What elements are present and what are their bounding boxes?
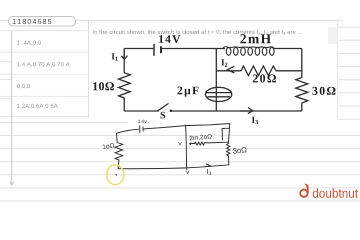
hand node v left (178, 142, 181, 145)
wire left upper (123, 49, 125, 73)
wire top left (124, 48, 153, 50)
wire branch 20ohm left (216, 70, 241, 72)
hand wire top mid (144, 126, 186, 129)
highlight circle cursor (107, 165, 124, 185)
label I3 (252, 117, 258, 124)
label I1 (112, 53, 118, 60)
hand wire left upper (116, 133, 119, 143)
wire top right (275, 48, 302, 50)
label 14V (159, 35, 180, 43)
hand wire right lower (228, 156, 230, 165)
resistor R3 30ohm (296, 78, 308, 103)
switch S (157, 103, 172, 112)
left mini column separators (0, 62, 12, 99)
hand label 2m 20ohm (190, 134, 212, 141)
label S (161, 112, 166, 119)
hand arrow I3 (205, 164, 210, 167)
hand wire mid vertical (186, 125, 187, 169)
arrow I1 (121, 50, 127, 59)
label 2uF (178, 87, 199, 97)
hand stray stroke (222, 128, 230, 140)
option A text (17, 41, 41, 46)
hand branch 20ohm (189, 142, 229, 145)
option C text (17, 84, 30, 89)
wire bottom left (124, 110, 159, 112)
sidebar id pill (9, 17, 76, 27)
hand wire bottom (118, 165, 229, 169)
hand resistor 10ohm (115, 143, 123, 160)
label I2 (221, 59, 227, 66)
resistor R1 10ohm (119, 72, 131, 99)
inductor L1 2mH (223, 47, 275, 56)
hand resistor 30ohm (227, 144, 230, 156)
label 20ohm (253, 74, 276, 82)
question panel right border (337, 20, 339, 120)
sidebar right border (88, 20, 90, 118)
scrollbar thumb (328, 27, 338, 44)
battery B1 14V (154, 44, 161, 56)
capacitor C1 2uF (205, 87, 231, 101)
label 30ohm (313, 87, 336, 95)
hand wire top right (186, 124, 230, 126)
wire right lower (301, 103, 303, 111)
doubtnut logo (300, 184, 358, 198)
printed labels (93, 34, 335, 124)
label 2mH (240, 34, 271, 43)
wire bottom right (172, 110, 302, 112)
arrow I3 (240, 108, 253, 114)
hand wire left lower (117, 160, 120, 169)
faint vertical pen stroke with arrow (10, 32, 14, 186)
option D text (17, 104, 58, 109)
ruled whiteboard lines (0, 20, 360, 201)
hand node v bottom (186, 171, 189, 174)
question text (93, 30, 302, 35)
wire mid vertical upper (215, 49, 217, 112)
hand wire top left (117, 129, 139, 133)
option B text (17, 62, 70, 67)
hand label I3 (207, 169, 211, 175)
hand label 30ohm (233, 147, 247, 154)
label 10ohm (93, 82, 114, 90)
resistor R2 20ohm (241, 66, 276, 76)
wire branch 20ohm right (276, 70, 302, 72)
hand label 10ohm (102, 143, 114, 149)
sidebar separators (0, 31, 88, 117)
arrow I2 (227, 66, 234, 73)
wire right upper (301, 49, 303, 78)
hand label 14v (138, 120, 146, 123)
wire top mid (162, 48, 225, 50)
hand wire right upper (228, 124, 229, 144)
hand battery (140, 126, 143, 133)
wire left lower (123, 99, 125, 111)
